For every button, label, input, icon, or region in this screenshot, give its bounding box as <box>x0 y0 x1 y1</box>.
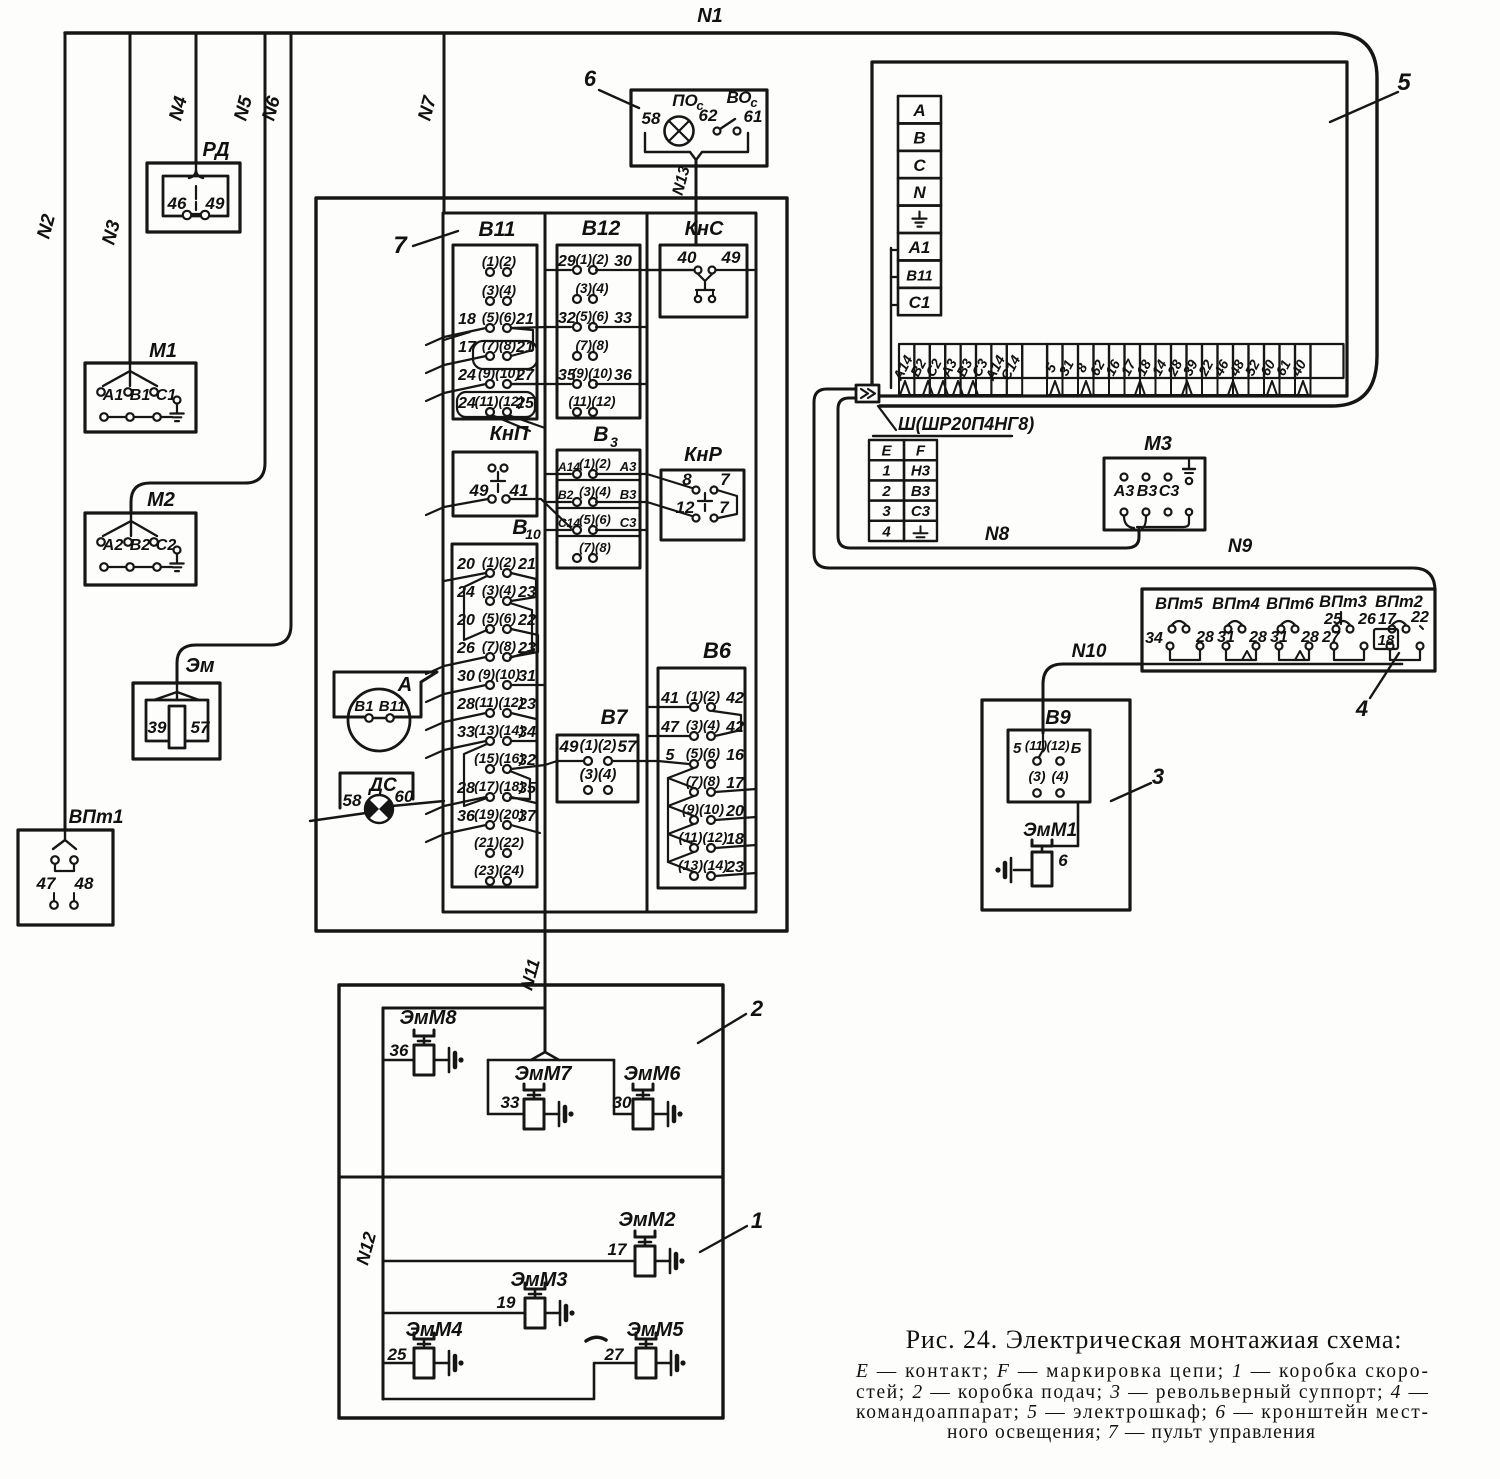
svg-text:3: 3 <box>882 503 891 520</box>
svg-text:26: 26 <box>1357 611 1376 628</box>
svg-text:В11: В11 <box>479 218 516 241</box>
svg-text:(11)(12): (11)(12) <box>475 694 524 710</box>
svg-text:(1)(2): (1)(2) <box>482 253 517 269</box>
svg-text:(1)(2): (1)(2) <box>576 252 610 267</box>
svg-text:(7)(8): (7)(8) <box>579 540 611 555</box>
svg-text:22: 22 <box>517 612 536 629</box>
svg-text:Е — контакт; F — маркировка ц: Е — контакт; F — маркировка цепи; 1 — ко… <box>855 1361 1428 1382</box>
svg-text:(9)(10): (9)(10) <box>478 365 520 381</box>
svg-text:28: 28 <box>1248 629 1267 646</box>
svg-text:(5)(6): (5)(6) <box>482 610 517 626</box>
svg-text:(1)(2): (1)(2) <box>580 737 617 754</box>
svg-text:33: 33 <box>457 724 475 741</box>
svg-text:В1: В1 <box>354 698 373 715</box>
svg-text:57: 57 <box>618 737 638 756</box>
svg-text:ВО: ВО <box>726 88 751 107</box>
svg-text:А3: А3 <box>1113 483 1135 500</box>
svg-text:5: 5 <box>1397 69 1411 96</box>
svg-text:В6: В6 <box>703 638 732 663</box>
svg-text:34: 34 <box>518 724 536 741</box>
svg-text:47: 47 <box>660 719 680 736</box>
svg-text:А: А <box>397 674 412 696</box>
svg-text:25: 25 <box>387 1345 407 1364</box>
svg-text:61: 61 <box>744 107 763 126</box>
svg-text:В7: В7 <box>601 706 629 729</box>
svg-text:33: 33 <box>614 310 632 327</box>
svg-text:ДС: ДС <box>367 775 397 796</box>
svg-text:В9: В9 <box>1045 707 1071 729</box>
svg-text:3: 3 <box>1152 764 1164 789</box>
svg-text:ВПт5: ВПт5 <box>1155 595 1203 613</box>
svg-text:30: 30 <box>457 668 475 685</box>
svg-text:В2: В2 <box>558 488 574 502</box>
svg-text:4: 4 <box>881 523 891 540</box>
svg-text:19: 19 <box>497 1293 516 1312</box>
svg-text:ВПт1: ВПт1 <box>69 807 124 828</box>
svg-text:(3)(4): (3)(4) <box>576 281 610 296</box>
svg-text:А1: А1 <box>102 387 124 404</box>
svg-text:С3: С3 <box>911 503 931 520</box>
svg-text:28: 28 <box>456 696 475 713</box>
svg-text:18: 18 <box>458 311 476 328</box>
svg-text:ЭмМ6: ЭмМ6 <box>624 1063 682 1085</box>
svg-text:30: 30 <box>613 1093 632 1112</box>
svg-text:N8: N8 <box>985 524 1010 545</box>
svg-text:20: 20 <box>456 556 475 573</box>
svg-text:7: 7 <box>393 232 408 259</box>
svg-text:33: 33 <box>501 1093 520 1112</box>
svg-text:49: 49 <box>721 248 741 267</box>
svg-text:24: 24 <box>457 367 476 384</box>
svg-text:В3: В3 <box>1137 483 1158 500</box>
svg-text:(7)(8): (7)(8) <box>482 337 517 353</box>
svg-text:18: 18 <box>1378 632 1395 649</box>
svg-text:ВПт6: ВПт6 <box>1266 595 1314 613</box>
svg-text:5: 5 <box>1013 740 1022 757</box>
svg-text:(15)(16): (15)(16) <box>474 750 524 766</box>
svg-text:Рис. 24. Электрическая монтажи: Рис. 24. Электрическая монтажиая схема: <box>906 1325 1403 1354</box>
svg-text:41: 41 <box>509 481 529 500</box>
svg-text:8: 8 <box>682 470 692 489</box>
svg-text:27: 27 <box>1321 629 1341 646</box>
svg-text:(13)(14): (13)(14) <box>474 722 524 738</box>
svg-text:25: 25 <box>515 395 535 412</box>
svg-text:В11: В11 <box>906 267 932 284</box>
svg-text:А: А <box>912 101 925 120</box>
svg-text:41: 41 <box>660 690 679 707</box>
svg-text:23: 23 <box>517 696 536 713</box>
svg-text:6: 6 <box>584 66 597 91</box>
svg-text:N10: N10 <box>1072 641 1107 662</box>
svg-text:47: 47 <box>36 874 57 893</box>
svg-text:В12: В12 <box>582 217 621 240</box>
svg-text:31: 31 <box>1270 629 1288 646</box>
svg-text:(1)(2): (1)(2) <box>686 688 721 704</box>
svg-text:12: 12 <box>676 498 695 517</box>
svg-text:ПО: ПО <box>672 91 697 110</box>
svg-text:35: 35 <box>558 367 577 384</box>
svg-text:27: 27 <box>604 1345 625 1364</box>
svg-text:(3)(4): (3)(4) <box>580 766 617 783</box>
svg-text:В: В <box>913 128 925 147</box>
svg-text:29: 29 <box>557 253 576 270</box>
svg-text:С14: С14 <box>558 516 580 530</box>
svg-text:(5)(6): (5)(6) <box>579 512 611 527</box>
svg-text:(9)(10): (9)(10) <box>478 666 520 682</box>
svg-text:ВПт4: ВПт4 <box>1212 595 1260 613</box>
svg-text:26: 26 <box>456 640 475 657</box>
svg-text:М3: М3 <box>1144 433 1172 455</box>
svg-text:(5)(6): (5)(6) <box>576 309 610 324</box>
svg-text:17: 17 <box>608 1240 628 1259</box>
svg-text:В3: В3 <box>911 483 931 500</box>
svg-text:39: 39 <box>148 718 167 737</box>
svg-text:(7)(8): (7)(8) <box>482 638 517 654</box>
svg-text:(12): (12) <box>1046 738 1069 753</box>
svg-text:(11)(12): (11)(12) <box>568 394 616 409</box>
svg-text:46: 46 <box>167 194 187 213</box>
svg-text:35: 35 <box>518 780 537 797</box>
svg-text:(21)(22): (21)(22) <box>474 834 524 850</box>
svg-text:7: 7 <box>719 498 730 517</box>
svg-text:21: 21 <box>515 311 534 328</box>
svg-text:КнП: КнП <box>490 423 529 445</box>
svg-text:28: 28 <box>1300 629 1319 646</box>
svg-text:2: 2 <box>881 483 891 500</box>
svg-text:57: 57 <box>191 718 211 737</box>
svg-text:КнС: КнС <box>685 218 724 240</box>
svg-text:(9)(10): (9)(10) <box>572 366 613 381</box>
svg-text:58: 58 <box>642 109 661 128</box>
svg-text:(4): (4) <box>1051 768 1068 784</box>
svg-text:(23)(24): (23)(24) <box>474 862 524 878</box>
svg-text:М1: М1 <box>149 340 177 362</box>
svg-text:(3)(4): (3)(4) <box>482 582 517 598</box>
svg-text:С1: С1 <box>909 293 931 312</box>
svg-text:31: 31 <box>1217 629 1235 646</box>
svg-text:Эм: Эм <box>185 655 214 677</box>
svg-text:21: 21 <box>517 556 536 573</box>
svg-text:1: 1 <box>751 1208 763 1233</box>
svg-text:(3): (3) <box>1028 768 1045 784</box>
svg-text:стей; 2 — коробка подач; 3 —: стей; 2 — коробка подач; 3 — револьверны… <box>856 1382 1429 1403</box>
svg-text:40: 40 <box>677 248 697 267</box>
svg-text:6: 6 <box>1058 851 1068 870</box>
svg-text:РД: РД <box>202 139 229 161</box>
svg-text:32: 32 <box>558 310 576 327</box>
svg-text:(17)(18): (17)(18) <box>474 778 524 794</box>
svg-text:31: 31 <box>518 668 536 685</box>
svg-text:(1)(2): (1)(2) <box>482 554 517 570</box>
svg-text:(11)(12): (11)(12) <box>679 829 728 845</box>
svg-text:49: 49 <box>469 481 489 500</box>
svg-text:10: 10 <box>525 526 541 542</box>
svg-text:37: 37 <box>518 808 537 825</box>
svg-text:3: 3 <box>610 434 618 450</box>
svg-text:58: 58 <box>343 791 362 810</box>
svg-text:N: N <box>913 183 926 202</box>
svg-text:ЭмМ1: ЭмМ1 <box>1023 820 1077 841</box>
svg-text:Ш(ШР20П4НГ8): Ш(ШР20П4НГ8) <box>898 414 1034 434</box>
svg-text:4: 4 <box>1355 696 1368 721</box>
svg-text:Е: Е <box>881 443 892 460</box>
svg-text:(3)(4): (3)(4) <box>686 717 721 733</box>
svg-text:ЭмМ7: ЭмМ7 <box>515 1063 573 1085</box>
svg-text:командоаппарат; 5 — электрошк: командоаппарат; 5 — электрошкаф; 6 — кро… <box>856 1402 1428 1423</box>
svg-text:42: 42 <box>725 690 744 707</box>
svg-text:1: 1 <box>882 463 890 480</box>
svg-text:Н3: Н3 <box>911 463 931 480</box>
svg-text:ЭмМ8: ЭмМ8 <box>400 1007 458 1029</box>
svg-text:(3)(4): (3)(4) <box>482 282 517 298</box>
svg-text:В2: В2 <box>130 537 151 554</box>
svg-text:36: 36 <box>614 367 632 384</box>
svg-text:48: 48 <box>74 874 94 893</box>
svg-text:49: 49 <box>205 194 225 213</box>
svg-text:N1: N1 <box>697 5 723 27</box>
svg-text:16: 16 <box>726 747 744 764</box>
svg-text:(5)(6): (5)(6) <box>482 309 517 325</box>
svg-text:КнР: КнР <box>684 444 722 466</box>
svg-text:34: 34 <box>1145 630 1163 647</box>
svg-text:62: 62 <box>699 106 718 125</box>
svg-text:(13)(14): (13)(14) <box>678 857 728 873</box>
svg-text:N9: N9 <box>1228 536 1253 557</box>
svg-text:(19)(20): (19)(20) <box>474 806 524 822</box>
svg-text:24: 24 <box>457 395 476 412</box>
svg-text:(1)(2): (1)(2) <box>579 456 611 471</box>
svg-text:В11: В11 <box>379 698 405 715</box>
svg-text:А14: А14 <box>557 460 580 474</box>
svg-text:(7)(8): (7)(8) <box>576 338 610 353</box>
svg-text:5: 5 <box>666 747 676 764</box>
svg-text:В1: В1 <box>130 387 151 404</box>
svg-text:20: 20 <box>456 612 475 629</box>
svg-text:С3: С3 <box>620 515 637 530</box>
svg-text:F: F <box>916 443 926 460</box>
svg-text:ЭмМ2: ЭмМ2 <box>619 1209 676 1231</box>
svg-text:ного освещения; 7 — пульт упра: ного освещения; 7 — пульт управления <box>947 1422 1315 1443</box>
svg-text:В: В <box>593 423 608 446</box>
svg-text:С3: С3 <box>1159 483 1180 500</box>
svg-text:В3: В3 <box>620 487 637 502</box>
svg-text:2: 2 <box>750 996 764 1021</box>
svg-text:49: 49 <box>559 737 579 756</box>
svg-text:30: 30 <box>614 253 632 270</box>
svg-text:А2: А2 <box>102 537 124 554</box>
svg-text:36: 36 <box>457 808 475 825</box>
svg-text:С: С <box>913 156 926 175</box>
svg-text:А3: А3 <box>619 459 637 474</box>
svg-text:А1: А1 <box>908 238 931 257</box>
svg-text:22: 22 <box>1410 609 1429 626</box>
svg-text:28: 28 <box>1195 629 1214 646</box>
svg-text:7: 7 <box>720 470 731 489</box>
svg-text:36: 36 <box>390 1041 409 1060</box>
svg-text:ВПт3: ВПт3 <box>1319 593 1367 611</box>
svg-text:(3)(4): (3)(4) <box>579 484 611 499</box>
svg-text:М2: М2 <box>147 489 175 511</box>
svg-text:28: 28 <box>456 780 475 797</box>
svg-text:(5)(6): (5)(6) <box>686 745 721 761</box>
svg-text:Б: Б <box>1071 740 1082 757</box>
